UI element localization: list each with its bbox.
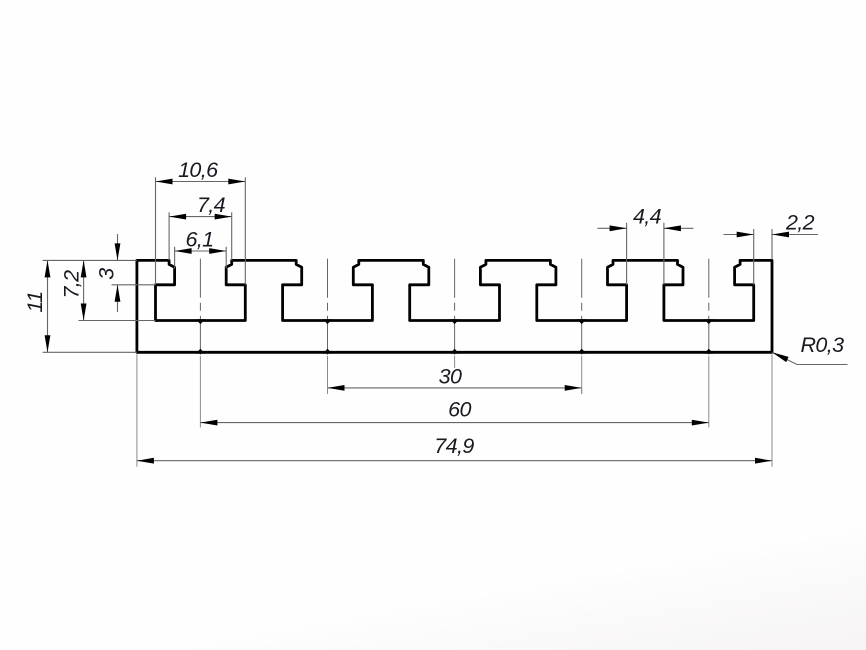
tick mark base bottom at slot 4 centerline — [577, 349, 587, 354]
dimension 4,4 arrows — [598, 227, 627, 229]
dimension 3 line upper arrow — [117, 234, 119, 260]
tick mark base bottom at slot 2 centerline — [323, 349, 333, 354]
dimension 6,1 extension lines — [174, 247, 176, 268]
svg-text:6,1: 6,1 — [185, 227, 213, 251]
centerline slot 3 — [454, 259, 456, 358]
dimension 74,9 line with arrows — [137, 460, 772, 462]
tick mark base bottom at slot 3 centerline — [450, 349, 460, 354]
extension line top surface (left) — [43, 259, 137, 261]
centerline slot 2 — [327, 259, 329, 358]
svg-text:30: 30 — [439, 364, 462, 388]
dimension 2,2 extension lines — [753, 229, 755, 285]
svg-text:4,4: 4,4 — [633, 205, 662, 229]
dimension 10,6 extension lines — [155, 177, 157, 284]
dimension 74,9 extension lines — [136, 354, 138, 467]
dimension 3 line lower arrow — [117, 285, 119, 312]
tick mark base bottom at slot 5 centerline — [704, 349, 714, 354]
centerline slot 5 — [708, 259, 710, 358]
leader R0,3 — [772, 352, 848, 364]
svg-text:74,9: 74,9 — [434, 434, 474, 458]
dimension 30 line with arrows — [328, 387, 582, 389]
tick mark slot 4 bottom — [577, 319, 586, 324]
svg-text:7,2: 7,2 — [60, 270, 84, 299]
tick mark base bottom at slot 1 centerline — [196, 349, 206, 354]
svg-text:2,2: 2,2 — [785, 211, 815, 235]
dimension 7,4 extension lines — [168, 212, 170, 260]
svg-text:60: 60 — [448, 397, 471, 421]
dimension 10,6 line with arrows — [156, 181, 246, 183]
svg-text:11: 11 — [23, 291, 47, 312]
tick mark slot 3 bottom — [450, 319, 459, 324]
extension line depth 3 — [112, 284, 156, 286]
extension line depth 7,2 — [79, 320, 156, 322]
tick mark slot 2 bottom — [323, 319, 332, 324]
svg-text:10,6: 10,6 — [178, 158, 218, 182]
dimension 11 line with arrows — [47, 260, 49, 352]
extension line bottom (left) — [43, 351, 137, 353]
svg-text:R0,3: R0,3 — [801, 333, 845, 357]
dimension 7,4 line with arrows — [169, 216, 232, 218]
dimension 30 extension overshoot — [327, 388, 329, 394]
dimension 2,2 arrows — [724, 234, 754, 236]
svg-text:3: 3 — [95, 268, 119, 280]
dimension 6,1 line with arrows — [175, 250, 227, 252]
profile outline T-slot plate — [137, 260, 772, 352]
tick mark slot 1 bottom — [196, 319, 205, 324]
centerline slot 4 — [581, 259, 583, 358]
dimension 60 line with arrows — [200, 422, 708, 424]
dimension 7,2 line with arrows — [83, 260, 85, 320]
dimension 4,4 extension lines — [626, 223, 628, 285]
svg-text:7,4: 7,4 — [197, 193, 226, 217]
centerline slot 1 — [199, 259, 201, 358]
tick mark slot 5 bottom — [704, 319, 713, 324]
